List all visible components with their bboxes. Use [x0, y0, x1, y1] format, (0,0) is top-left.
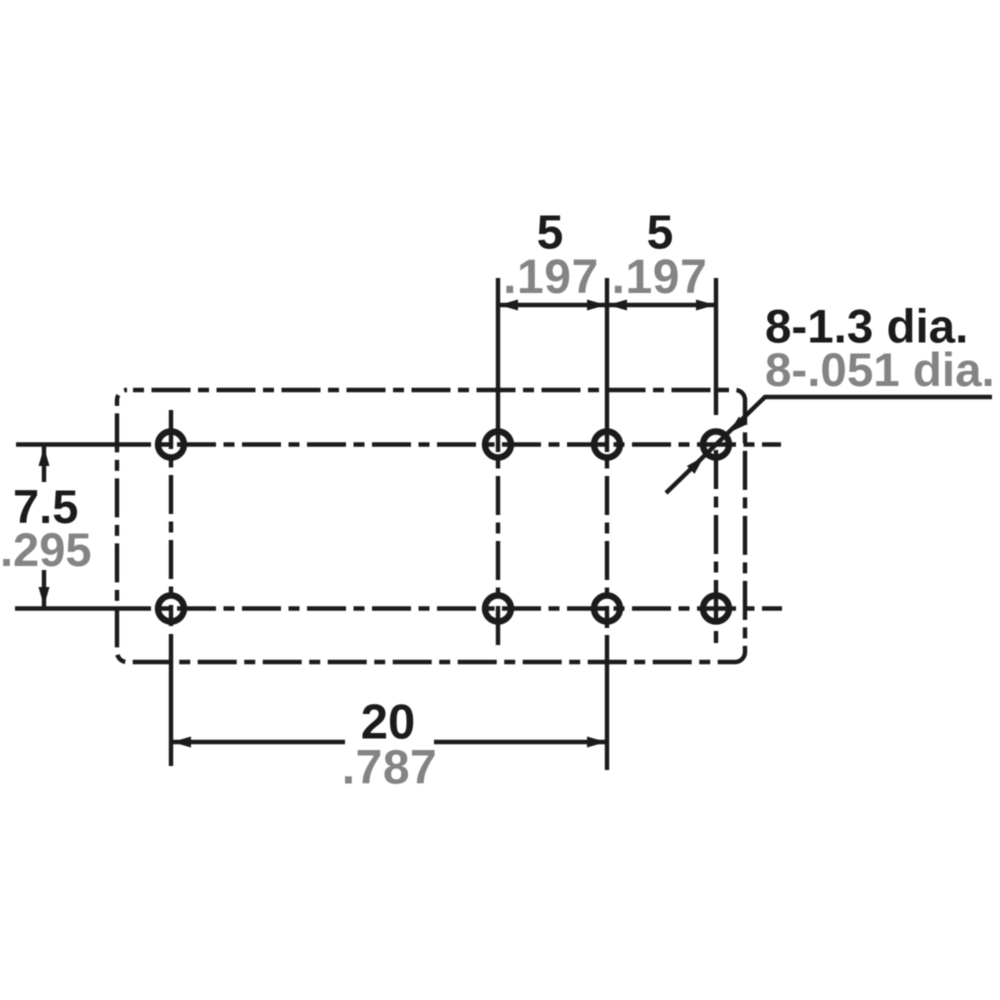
svg-text:.295: .295 [0, 523, 91, 576]
svg-text:.197: .197 [612, 251, 708, 304]
svg-text:.197: .197 [503, 251, 599, 304]
svg-text:.787: .787 [342, 742, 437, 795]
svg-text:8-.051 dia.: 8-.051 dia. [765, 344, 995, 397]
